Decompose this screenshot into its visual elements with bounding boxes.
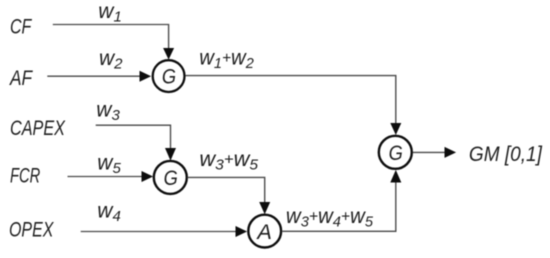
wire G3 output	[413, 151, 445, 153]
wire A output to G3 (right then up)	[282, 182, 395, 231]
svg-text:G: G	[162, 65, 176, 88]
op node G2 circle	[154, 161, 187, 194]
wire OPEX to A	[81, 231, 236, 233]
svg-text:A: A	[255, 221, 272, 244]
svg-text:w4: w4	[97, 200, 121, 226]
wire FCR to G2	[68, 176, 143, 178]
arrowhead into G1 top	[163, 48, 174, 60]
wire CF to G1 (horizontal then down)	[53, 25, 169, 50]
svg-text:AF: AF	[8, 67, 33, 90]
wire G2 output to A (right then down)	[187, 177, 264, 203]
wire CAPEX to G2 (horizontal then down)	[96, 125, 171, 149]
arrowhead output	[445, 147, 457, 158]
net label w3+w5	[199, 147, 258, 173]
svg-text:G: G	[164, 167, 178, 190]
net label w1+w2	[199, 46, 254, 72]
svg-text:CAPEX: CAPEX	[10, 117, 66, 140]
svg-text:w5: w5	[97, 151, 121, 177]
svg-text:OPEX: OPEX	[9, 219, 54, 242]
arrowhead into G1 left	[140, 71, 152, 82]
arrowhead into G2 left	[142, 171, 154, 182]
op node G3 circle	[379, 136, 412, 169]
wire G1 output to G3 (right then down)	[186, 76, 396, 123]
svg-text:w3+w5: w3+w5	[199, 147, 258, 173]
svg-text:G: G	[389, 142, 403, 165]
arrowhead into A top	[259, 202, 270, 214]
svg-text:CF: CF	[10, 16, 32, 39]
arrowhead into G3 bottom	[390, 170, 401, 183]
wire AF to G1	[47, 75, 140, 77]
svg-text:GM [0,1]: GM [0,1]	[469, 143, 543, 166]
arrowhead into G2 top	[165, 148, 176, 161]
svg-text:w2: w2	[99, 47, 123, 73]
arrowhead into A left	[236, 226, 248, 237]
svg-text:w3: w3	[96, 98, 120, 124]
svg-text:FCR: FCR	[10, 165, 40, 188]
svg-text:w3+w4+w5: w3+w4+w5	[286, 205, 374, 231]
op node G1 circle	[153, 60, 185, 92]
net label w3+w4+w5	[286, 205, 374, 231]
op node A circle	[248, 215, 281, 248]
svg-text:w1: w1	[98, 0, 122, 26]
svg-text:w1+w2: w1+w2	[199, 46, 254, 72]
arrowhead into G3 top	[390, 123, 401, 135]
